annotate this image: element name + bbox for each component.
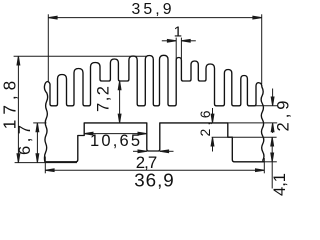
dimension 2,6 [197,108,277,152]
dimension 17,8 total height [0,56,146,162]
dimension 2,9 [228,89,293,134]
svg-text:2,6: 2,6 [197,110,213,136]
svg-text:36,9: 36,9 [134,169,174,190]
svg-text:6,7: 6,7 [16,125,34,155]
svg-text:10,65: 10,65 [90,132,140,150]
svg-text:2,9: 2,9 [275,101,293,132]
dimension 2,7 [133,150,174,172]
dimension 35,9 top width [48,1,261,84]
svg-text:17,8: 17,8 [0,81,19,130]
dimension 7,2 [95,81,122,123]
dimension 1 fin thickness [162,23,196,60]
svg-text:4,1: 4,1 [271,173,289,196]
heatsink profile outline [44,55,264,162]
svg-text:1: 1 [174,23,182,40]
dimension 36,9 bottom width [45,157,264,191]
svg-text:7,2: 7,2 [95,86,113,112]
svg-text:35,9: 35,9 [132,1,172,18]
dimension 6,7 [16,123,47,163]
dimension 10,65 [84,132,147,150]
dimension 4,1 [264,137,289,196]
